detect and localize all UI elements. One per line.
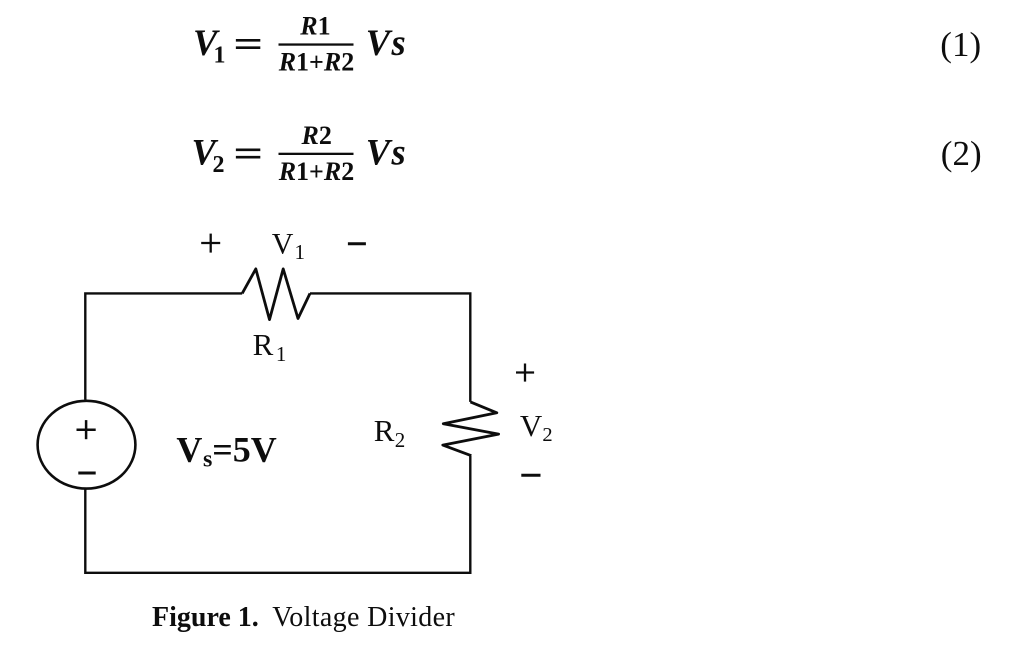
svg-text:Vs: Vs	[366, 22, 408, 63]
caption: Figure 1. Voltage Divider	[152, 602, 455, 633]
equation 2: V2 = R2/(R1+R2) Vs	[192, 121, 408, 186]
value label Vs=5V	[176, 429, 276, 472]
svg-text:R: R	[374, 413, 395, 448]
resistor R2	[443, 402, 499, 456]
svg-text:2: 2	[213, 152, 225, 178]
svg-text:(1): (1)	[940, 25, 981, 64]
svg-text:s: s	[203, 447, 212, 473]
wire: R2 bottom down to bottom-right corner, across bottom, up to Vs bottom terminal	[85, 456, 470, 573]
svg-text:(2): (2)	[941, 134, 982, 173]
svg-text:V: V	[176, 429, 202, 469]
resistor R1	[242, 269, 310, 320]
voltage source Vs (circle)	[38, 401, 136, 489]
svg-text:R1+R2: R1+R2	[278, 157, 355, 186]
polarity minus for V1 (top right of R1)	[348, 242, 366, 245]
svg-text:R2: R2	[301, 121, 332, 150]
svg-text:V: V	[272, 228, 294, 261]
label V2	[520, 408, 553, 446]
voltage source minus mark	[78, 472, 95, 475]
equation 1: V1 = R1/(R1+R2) Vs	[193, 12, 407, 77]
label R1	[253, 327, 287, 366]
svg-text:=: =	[233, 133, 263, 174]
voltage source plus mark	[77, 420, 96, 439]
svg-text:Figure 1.: Figure 1.	[152, 602, 259, 633]
wire: Vs top terminal up to top-left corner and across to R1 left	[85, 293, 242, 399]
svg-text:R1: R1	[299, 12, 330, 41]
svg-text:=: =	[233, 24, 263, 65]
svg-text:R1+R2: R1+R2	[278, 48, 355, 77]
svg-text:=5V: =5V	[212, 429, 277, 469]
svg-text:1: 1	[214, 43, 226, 69]
svg-text:1: 1	[276, 342, 287, 366]
polarity minus for V2 (below V2 label)	[521, 474, 540, 477]
svg-text:2: 2	[542, 424, 552, 446]
wire: R1 right across to top-right corner and down to R2 top	[310, 293, 470, 402]
svg-text:Vs: Vs	[366, 131, 408, 172]
label R2	[374, 413, 406, 452]
label V1	[272, 228, 305, 264]
svg-text:Voltage Divider: Voltage Divider	[272, 602, 455, 633]
polarity plus for V1 (top left of R1)	[201, 234, 220, 253]
polarity plus for V2 (above V2 label)	[516, 364, 534, 382]
svg-text:2: 2	[395, 428, 406, 452]
svg-text:V: V	[520, 408, 543, 443]
svg-text:1: 1	[295, 240, 306, 264]
svg-text:R: R	[253, 327, 274, 362]
